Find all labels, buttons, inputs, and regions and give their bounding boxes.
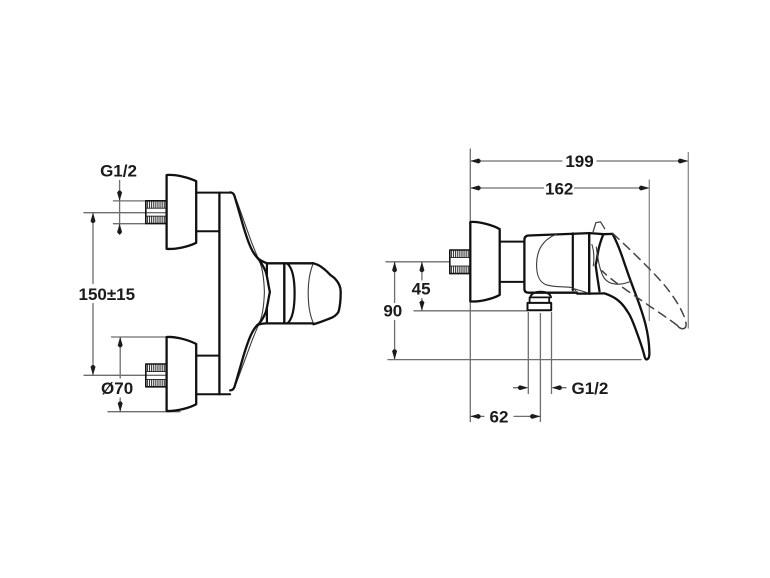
outlet nut G1/2	[528, 303, 552, 310]
arrow 90 down	[392, 349, 397, 359]
thread minor-diameter lines bottom nipple	[146, 371, 167, 379]
thread hatch side nipple	[452, 251, 469, 274]
escutcheon cone top (front view)	[167, 175, 197, 249]
cartridge ring line 2 (front view)	[283, 263, 285, 323]
svg-text:150±15: 150±15	[78, 285, 135, 304]
handle skirt bottom (side view)	[589, 292, 604, 295]
wire: 162 extension line	[648, 180, 650, 321]
arrow 150 up	[90, 213, 95, 223]
wire: wall extension line	[469, 149, 471, 422]
body inner contour thin curve (front view)	[236, 200, 264, 384]
thread nipple (side view)	[450, 250, 471, 274]
thread minor-diameter lines top nipple	[146, 208, 167, 216]
svg-text:45: 45	[412, 280, 431, 299]
arrow Ø70 up	[118, 337, 123, 347]
thread nipple top (front view)	[146, 201, 167, 224]
dashed handle cap peak (alternate position)	[593, 222, 605, 233]
thread hatch bottom nipple	[148, 365, 165, 387]
dimension Ø70 leader	[119, 337, 121, 412]
svg-text:199: 199	[565, 152, 593, 171]
arrow Ø70 down	[118, 401, 123, 411]
dimension 45 leader	[421, 262, 423, 311]
lever top plateau	[603, 233, 612, 236]
body shell outline (side view)	[524, 233, 589, 294]
wire: G1/2 extension line right	[551, 313, 553, 394]
lever right edge to tip and back (side view)	[604, 234, 649, 360]
wire: bottom inlet centre line	[84, 374, 166, 376]
handle skirt barrel (front view)	[287, 264, 294, 324]
cartridge housing top edge (front view)	[257, 258, 313, 264]
wire: outlet centre extension line	[539, 314, 541, 422]
arrow G1/2 pointing left	[552, 385, 562, 390]
dimension 199 line	[470, 160, 688, 162]
cartridge ring line B (side view)	[588, 233, 590, 294]
dimension 150±15 line	[92, 213, 94, 376]
dashed lever tip arc (alternate position)	[677, 325, 685, 328]
knob base arc (front view)	[308, 264, 313, 324]
arrow G1/2 up	[117, 224, 122, 234]
arrow 162 left	[470, 185, 480, 190]
wire: outlet face reference line (45)	[414, 310, 528, 312]
stub top (front view)	[196, 193, 230, 232]
lever grip thin line (side view)	[596, 247, 631, 284]
dimension 162 line	[470, 187, 649, 189]
cartridge ring line 1 (front view)	[266, 263, 268, 323]
wire: Ø70 extension bottom	[108, 411, 180, 413]
cartridge housing bottom edge (front view)	[257, 323, 313, 325]
lever solid outline (side view)	[596, 234, 604, 291]
escutcheon cone (side view)	[470, 222, 499, 302]
body left edge (front view)	[218, 193, 220, 395]
arrow 199 right	[678, 158, 688, 163]
wire: top thread extension line upper	[113, 200, 145, 202]
wire: top inlet centre line	[84, 212, 166, 214]
wire: top thread extension line lower	[113, 223, 145, 225]
cartridge ring line A (side view)	[572, 233, 574, 290]
dimension leader G1/2 top	[119, 181, 121, 235]
body shell front thin curve (side view)	[537, 234, 577, 292]
stub (side view)	[500, 242, 525, 282]
thread minor-diameter lines side nipple	[450, 258, 471, 267]
arrow 162 right	[639, 185, 649, 190]
dashed lever upper edge (alternate position)	[613, 234, 686, 328]
thread hatch top nipple	[148, 201, 165, 223]
wire: handle tip reference line (90)	[388, 359, 641, 361]
arrow 199 left	[470, 158, 480, 163]
cap front arc thin (side view)	[592, 245, 594, 266]
arrow 45 up	[419, 262, 424, 272]
wire: inlet centre line (side view)	[386, 261, 450, 263]
body point white cover (front view)	[252, 254, 270, 331]
arrow G1/2 down	[117, 191, 122, 201]
G1/2 arrow tails	[514, 387, 567, 389]
arrow 150 down	[90, 365, 95, 375]
escutcheon cone bottom (front view)	[167, 337, 197, 411]
thread nipple bottom (front view)	[146, 364, 167, 387]
stub bottom (front view)	[196, 356, 230, 395]
svg-text:G1/2: G1/2	[572, 379, 609, 398]
svg-text:62: 62	[490, 407, 509, 426]
svg-text:G1/2: G1/2	[100, 162, 137, 181]
dashed lever lower edge (alternate position)	[602, 271, 677, 326]
body silhouette S-curve (front view)	[230, 192, 270, 390]
arrow 90 up	[392, 262, 397, 272]
dimension 62 line	[470, 415, 540, 417]
knob outline (front view)	[313, 263, 341, 324]
wire: Ø70 extension top	[111, 336, 166, 338]
wire: G1/2 extension line left	[527, 313, 529, 394]
arrow G1/2 pointing right	[518, 385, 528, 390]
svg-text:90: 90	[383, 301, 402, 320]
handle cap top edge (side view)	[589, 233, 603, 234]
svg-text:Ø70: Ø70	[101, 379, 133, 398]
svg-text:162: 162	[545, 179, 573, 198]
outlet dome disc (side view)	[530, 292, 551, 298]
dimension 90 leader	[394, 262, 396, 360]
arrow 62 left	[470, 414, 480, 419]
arrow 62 right	[530, 414, 540, 419]
outlet flange ring	[530, 297, 550, 302]
arrow 45 down	[419, 300, 424, 310]
wire: 199 extension line	[687, 153, 689, 329]
ring bottom slant thin	[573, 288, 588, 293]
